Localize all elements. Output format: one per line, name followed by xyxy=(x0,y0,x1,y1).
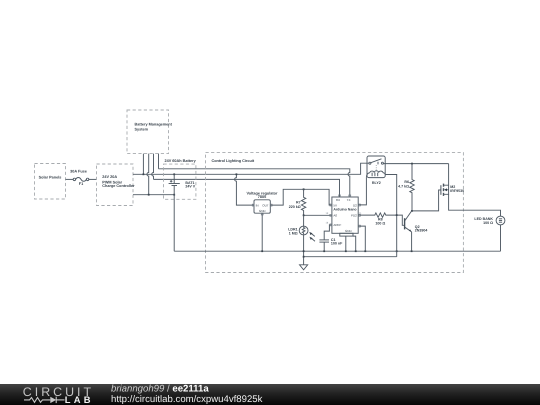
wire ground bus (y=251.2) xyxy=(174,250,500,252)
svg-text:24V 20A: 24V 20A xyxy=(102,175,117,179)
svg-text:Arduino Nano: Arduino Nano xyxy=(333,207,356,211)
wire +24V bus (y=174.3) xyxy=(133,163,369,174)
battery block 24V 60Ah xyxy=(164,159,197,199)
photoresistor LDR1 xyxy=(288,215,315,251)
svg-text:GND: GND xyxy=(345,229,353,233)
wire RX bus (y=179.1) xyxy=(154,179,340,197)
control lighting circuit block xyxy=(206,153,464,273)
resistor R8 100 ohm xyxy=(358,213,397,225)
wire BMS pin4 riser to TX bus xyxy=(158,154,160,169)
PWM solar charge controller block xyxy=(97,164,136,206)
microcontroller U1 Arduino Nano xyxy=(326,195,363,236)
wire A0 line xyxy=(304,214,332,216)
ground symbol xyxy=(300,265,308,270)
svg-text:http://circuitlab.com/cxpwu4vf: http://circuitlab.com/cxpwu4vf8925k xyxy=(111,394,263,405)
LED bank lamp xyxy=(474,216,504,225)
wire relay coil right to R8 node and ground xyxy=(385,175,397,257)
wire BMS pin3 riser with hop, to RX bus xyxy=(152,154,154,180)
solar panels block xyxy=(35,164,66,200)
svg-text:Control Lighting Circuit: Control Lighting Circuit xyxy=(212,159,255,163)
wire BMS pin2 riser with hop over +24V bus xyxy=(147,154,149,195)
wire Arduino GND pins to ground bus xyxy=(345,236,347,251)
node minus-battery junction xyxy=(173,194,175,196)
node bus2-regulator junction xyxy=(236,173,238,175)
svg-text:7805: 7805 xyxy=(258,195,266,199)
svg-text:brianngoh99 / ee2111a: brianngoh99 / ee2111a xyxy=(111,383,209,394)
node Arduino right GND junction xyxy=(364,250,366,252)
wire MOSFET drain to LED bank xyxy=(449,194,501,216)
node C1 ground junction xyxy=(323,250,325,252)
transistor M2 IRF9530 xyxy=(440,184,464,196)
svg-text:RLY2: RLY2 xyxy=(372,181,381,185)
resistor R6 4.7k xyxy=(398,164,414,211)
svg-text:2N3904: 2N3904 xyxy=(415,229,428,233)
wire TX bus (y=168.8) xyxy=(159,169,350,197)
node Q2 emitter ground junction xyxy=(411,250,413,252)
svg-text:LAB: LAB xyxy=(65,394,94,405)
svg-text:24V 60Ah Battery: 24V 60Ah Battery xyxy=(165,159,197,163)
svg-text:R7: R7 xyxy=(296,201,301,205)
wire LDR to ground stem xyxy=(303,251,305,265)
voltage regulator 7805 xyxy=(247,191,278,215)
wire lower rail (y=256.7) xyxy=(304,256,397,258)
node Arduino GND1 junction xyxy=(345,250,347,252)
capacitor C1 xyxy=(319,225,343,251)
svg-text:100 Ω: 100 Ω xyxy=(483,221,493,225)
svg-text:RX: RX xyxy=(336,198,340,202)
node bus2-BMS1 junction xyxy=(143,173,145,175)
svg-text:AREF: AREF xyxy=(333,223,341,227)
node switch-R6 junction xyxy=(411,163,413,165)
transistor Q2 2N3904 xyxy=(404,211,427,251)
node minus-BMS2 junction xyxy=(148,194,150,196)
relay RLY2 xyxy=(366,156,385,185)
svg-text:1 MΩ: 1 MΩ xyxy=(289,231,298,235)
wire regulator OUT to 5V pin xyxy=(270,189,332,205)
footer bar xyxy=(0,383,540,405)
svg-text:100 Ω: 100 Ω xyxy=(375,221,385,225)
svg-text:TX: TX xyxy=(347,198,351,202)
svg-text:Charge Controller: Charge Controller xyxy=(102,184,135,188)
wire relay coil left to Arduino D2 xyxy=(358,178,366,205)
svg-text:GND: GND xyxy=(259,209,267,213)
wire BMS pin1 riser xyxy=(142,154,144,175)
wire regulator IN riser with hop over RX bus xyxy=(235,174,254,205)
svg-text:24V V: 24V V xyxy=(185,185,195,189)
svg-text:30A Fuse: 30A Fuse xyxy=(70,170,87,174)
wire regulator GND to ground bus xyxy=(261,213,263,251)
svg-text:PD2: PD2 xyxy=(351,214,357,218)
battery BAT1 xyxy=(169,174,196,251)
svg-text:Battery Management: Battery Management xyxy=(135,123,173,127)
wire MOSFET source to switch line xyxy=(448,164,450,186)
svg-text:IRF9530: IRF9530 xyxy=(450,189,464,193)
wire Q2 base from R8 node xyxy=(397,215,405,225)
battery management system block xyxy=(127,110,173,154)
svg-text:220 kΩ: 220 kΩ xyxy=(289,205,301,209)
svg-text:R6: R6 xyxy=(404,180,409,184)
wire Arduino right GND pin to ground bus xyxy=(358,226,365,251)
svg-text:A0: A0 xyxy=(333,214,337,218)
svg-text:IN: IN xyxy=(256,203,259,207)
svg-text:F1: F1 xyxy=(79,182,83,186)
node 5V-R7 junction xyxy=(303,188,305,190)
svg-text:OUT: OUT xyxy=(262,203,269,207)
node gate-collector junction xyxy=(411,210,413,212)
node Arduino GND2 junction xyxy=(355,250,357,252)
svg-text:4.7 kΩ: 4.7 kΩ xyxy=(398,185,409,189)
wire solar to fuse xyxy=(66,178,74,180)
wire battery minus line (y=194.7) xyxy=(133,194,174,196)
svg-text:Solar Panels: Solar Panels xyxy=(39,176,62,180)
svg-text:100 nF: 100 nF xyxy=(331,242,343,246)
resistor R7 220k xyxy=(289,189,306,215)
wire relay switch right to MOSFET source xyxy=(383,163,448,165)
wire LED bank to ground bus xyxy=(500,225,502,251)
node LDR lower rail junction xyxy=(303,256,305,258)
wire fuse to charge controller xyxy=(89,178,97,180)
node LDR ground junction xyxy=(303,250,305,252)
node regulator GND junction xyxy=(261,250,263,252)
fuse F1 xyxy=(70,170,89,186)
node coil-return ground junction xyxy=(396,250,398,252)
node A0-LDR junction xyxy=(303,214,305,216)
node R8-coil junction xyxy=(396,214,398,216)
svg-text:System: System xyxy=(135,128,149,132)
wire gate line to MOSFET xyxy=(412,190,441,211)
node bus2-battery junction xyxy=(173,173,175,175)
